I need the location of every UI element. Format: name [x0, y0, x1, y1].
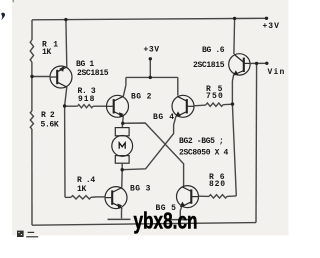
svg-text:1K: 1K	[42, 48, 51, 57]
svg-text:R 2: R 2	[41, 111, 55, 120]
svg-text:2SC8050 X 4: 2SC8050 X 4	[179, 148, 229, 157]
svg-text:820: 820	[209, 180, 226, 189]
svg-text:Vin: Vin	[268, 68, 286, 77]
svg-text:BG2 -BG5 ;: BG2 -BG5 ;	[179, 137, 224, 146]
svg-text:918: 918	[78, 95, 95, 104]
svg-text:BG .6: BG .6	[202, 46, 225, 55]
svg-text:BG 3: BG 3	[130, 184, 151, 193]
svg-text:R .4: R .4	[77, 176, 95, 185]
svg-text:2SC1815: 2SC1815	[77, 69, 109, 78]
svg-text:BG 1: BG 1	[76, 60, 94, 69]
svg-text:750: 750	[206, 92, 224, 101]
svg-text:+3V: +3V	[144, 46, 160, 55]
svg-text:2SC1815: 2SC1815	[193, 61, 225, 70]
svg-text:BG 2: BG 2	[131, 92, 152, 101]
svg-text:1K: 1K	[77, 185, 86, 194]
svg-text:5.6K: 5.6K	[41, 121, 59, 130]
svg-text:ybx8.cn: ybx8.cn	[134, 208, 198, 234]
svg-text:+3V: +3V	[263, 22, 280, 31]
svg-text:BG 4: BG 4	[153, 113, 175, 122]
